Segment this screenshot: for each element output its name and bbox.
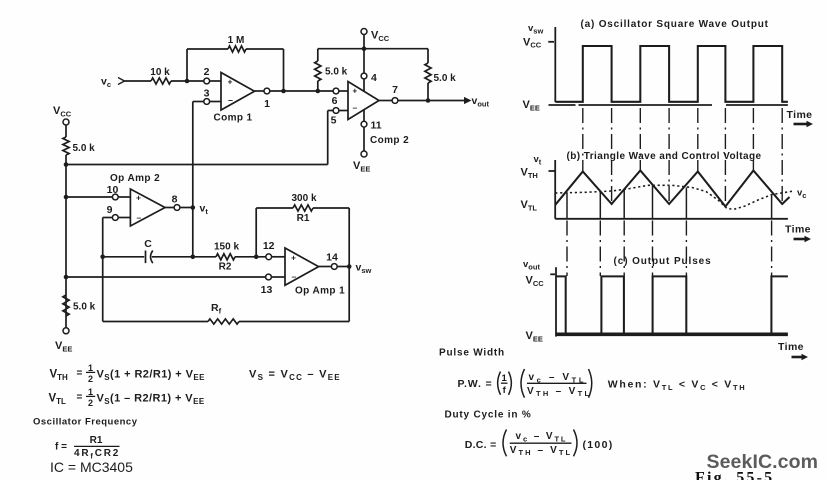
svg-text:P.W. =: P.W. =	[458, 378, 493, 390]
svg-text:1 M: 1 M	[228, 35, 245, 46]
svg-text:Op Amp 2: Op Amp 2	[110, 173, 160, 184]
svg-text:Pulse Width: Pulse Width	[439, 348, 505, 359]
svg-text:Comp 1: Comp 1	[213, 113, 252, 124]
svg-text:VS​(1 – R2/R1) + VEE​: VS​(1 – R2/R1) + VEE​	[97, 393, 205, 406]
svg-text:Fig. 55-5: Fig. 55-5	[695, 470, 774, 481]
svg-text:300 k: 300 k	[291, 193, 316, 204]
svg-text:8: 8	[172, 194, 178, 206]
svg-text:5.0 k: 5.0 k	[434, 73, 457, 84]
svg-text:5.0 k: 5.0 k	[73, 302, 96, 313]
svg-text:Oscillator Frequency: Oscillator Frequency	[33, 417, 138, 428]
svg-text:2: 2	[88, 374, 93, 384]
svg-text:R2: R2	[219, 262, 232, 273]
svg-text:When: VTL​ < VC​ < VTH​: When: VTL​ < VC​ < VTH​	[608, 379, 747, 392]
svg-text:10: 10	[107, 184, 119, 196]
svg-text:14: 14	[326, 252, 338, 264]
svg-text:(c) Output Pulses: (c) Output Pulses	[614, 256, 712, 267]
svg-text:Op Amp 1: Op Amp 1	[295, 286, 345, 297]
svg-text:9: 9	[107, 204, 113, 216]
svg-text:R1: R1	[90, 435, 103, 446]
svg-text:5.0 k: 5.0 k	[73, 143, 96, 154]
svg-text:4: 4	[371, 72, 377, 84]
svg-text:6: 6	[332, 95, 338, 107]
svg-text:1: 1	[88, 387, 93, 397]
svg-text:12: 12	[263, 240, 275, 252]
svg-text:150 k: 150 k	[214, 242, 239, 253]
svg-text:(a) Oscillator Square Wave Out: (a) Oscillator Square Wave Output	[581, 19, 769, 30]
svg-text:1: 1	[88, 363, 93, 373]
svg-text:Duty Cycle in %: Duty Cycle in %	[445, 410, 532, 421]
svg-text:7: 7	[392, 84, 398, 96]
svg-text:5: 5	[331, 115, 337, 127]
svg-text:11: 11	[371, 120, 382, 132]
svg-text:13: 13	[261, 284, 273, 296]
svg-text:+: +	[228, 77, 233, 87]
svg-text:1: 1	[264, 98, 270, 110]
svg-text:IC = MC3405: IC = MC3405	[50, 459, 133, 475]
svg-text:(100): (100)	[583, 439, 614, 451]
svg-text:f =: f =	[55, 442, 67, 453]
svg-text:Comp 2: Comp 2	[370, 135, 409, 146]
svg-text:+: +	[136, 193, 141, 203]
svg-text:3: 3	[204, 88, 210, 100]
svg-text:2: 2	[88, 398, 93, 408]
svg-text:C: C	[144, 238, 152, 250]
svg-text:R1: R1	[297, 213, 310, 224]
svg-text:10 k: 10 k	[150, 67, 170, 78]
svg-text:–: –	[137, 213, 142, 223]
svg-text:+: +	[291, 253, 296, 263]
svg-text:VS​(1 + R2/R1) + VEE​: VS​(1 + R2/R1) + VEE​	[97, 369, 206, 382]
svg-text:–: –	[292, 272, 297, 282]
svg-text:D.C. =: D.C. =	[465, 439, 497, 451]
svg-text:Time: Time	[778, 341, 804, 353]
svg-text:1: 1	[502, 373, 508, 384]
svg-text:–: –	[353, 103, 358, 113]
svg-text:+: +	[353, 87, 358, 96]
svg-text:(b) Triangle Wave and Control: (b) Triangle Wave and Control Voltage	[567, 151, 762, 162]
svg-text:Time: Time	[785, 224, 811, 236]
svg-text:2: 2	[204, 66, 210, 78]
svg-text:=: =	[77, 368, 83, 379]
svg-text:5.0 k: 5.0 k	[325, 67, 348, 78]
svg-text:–: –	[228, 95, 233, 105]
svg-text:=: =	[77, 392, 83, 403]
svg-text:Time: Time	[787, 109, 813, 121]
